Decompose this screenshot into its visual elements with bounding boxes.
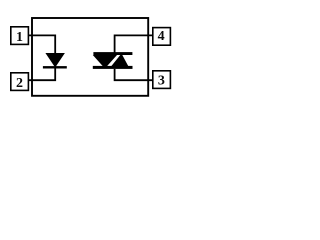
pin box 2	[11, 73, 29, 91]
LED D1 triangle (anode)	[45, 53, 65, 68]
triac Q1 right triangle (points up)	[111, 54, 129, 67]
triac Q1 top bar (MT2)	[93, 52, 132, 55]
pin box 1	[11, 27, 29, 45]
svg-text:3: 3	[158, 73, 165, 88]
svg-text:4: 4	[158, 29, 165, 44]
triac Q1 left triangle (points down)	[93, 55, 117, 69]
pin box 4	[153, 28, 171, 46]
svg-text:2: 2	[16, 76, 23, 91]
wire pin 1 to LED anode	[28, 35, 55, 54]
IC body U1	[32, 18, 148, 96]
wire pin 4 to triac MT2	[115, 35, 153, 53]
pin box 3	[153, 71, 171, 89]
wire LED cathode to pin 2	[28, 68, 55, 80]
svg-text:1: 1	[16, 30, 23, 45]
LED D1 cathode bar	[43, 66, 67, 68]
wire triac MT1 to pin 3	[115, 69, 153, 80]
triac Q1 bottom bar (MT1)	[93, 66, 133, 69]
